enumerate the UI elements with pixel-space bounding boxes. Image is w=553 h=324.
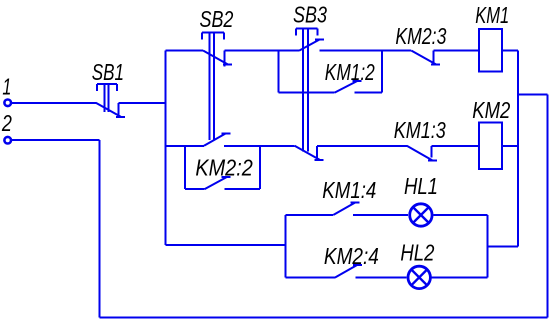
contact SB2 NO (row2) xyxy=(204,133,231,146)
left rail xyxy=(165,51,167,246)
wire KM1 coil to inner rail xyxy=(502,50,518,52)
svg-text:SB2: SB2 xyxy=(200,6,234,32)
coil KM1 xyxy=(479,29,502,72)
wire lamp row1 left xyxy=(285,214,333,216)
lamp HL2 xyxy=(408,266,430,288)
wire lamp feed left xyxy=(166,244,286,246)
svg-text:KM1:4: KM1:4 xyxy=(322,177,376,203)
svg-text:HL2: HL2 xyxy=(400,240,434,266)
svg-text:KM2:2: KM2:2 xyxy=(195,154,253,180)
wire jog inner to outer rail xyxy=(518,94,548,96)
wire KM1:3 to KM2 coil xyxy=(431,145,479,147)
wire row1 SB3 to KM2:3 xyxy=(319,50,411,52)
contact KM2:3 NC xyxy=(411,51,440,65)
terminal 1 xyxy=(4,100,11,107)
svg-text:KM2: KM2 xyxy=(472,97,510,123)
contact SB3 NO (row1) xyxy=(299,39,324,50)
terminal 2 xyxy=(4,137,11,144)
contact SB2 NC (row1) xyxy=(203,51,232,67)
svg-text:KM1:2: KM1:2 xyxy=(325,59,375,85)
inner right rail xyxy=(517,51,519,247)
svg-text:SB1: SB1 xyxy=(92,59,124,85)
wire HL2 to right edge xyxy=(432,276,488,278)
svg-text:KM2:3: KM2:3 xyxy=(395,23,446,49)
contact KM1:4 NO xyxy=(333,203,360,216)
coil KM2 xyxy=(479,123,502,170)
lamp box left edge xyxy=(284,215,286,277)
wire row2 SB3 to KM1:3 xyxy=(317,145,407,147)
pushbutton SB3 actuator xyxy=(296,29,318,152)
svg-text:KM1: KM1 xyxy=(475,2,509,28)
wire lamp feed right xyxy=(488,245,519,247)
wire KM2:2 branch bottom left xyxy=(185,188,204,190)
wire bottom return xyxy=(100,317,548,319)
wire KM2:3 to KM1 coil xyxy=(434,50,479,52)
wire terminal2 drop xyxy=(99,140,101,317)
svg-text:2: 2 xyxy=(1,110,12,136)
wire KM1:2 branch bottom right xyxy=(355,92,383,94)
wire row2 SB2 to SB3 xyxy=(224,145,295,147)
lamp box right edge xyxy=(487,215,489,277)
wire lamp row2 left xyxy=(285,276,335,278)
wire terminal2 right xyxy=(12,139,100,141)
branch KM2:2 right rise xyxy=(259,146,261,189)
wire HL1 to right edge xyxy=(434,214,488,216)
wire row1 left segment xyxy=(166,50,203,52)
svg-text:SB3: SB3 xyxy=(293,2,327,28)
svg-text:HL1: HL1 xyxy=(404,173,438,199)
svg-text:KM1:3: KM1:3 xyxy=(394,117,446,143)
outer right rail xyxy=(547,95,549,318)
wire SB1 to left rail xyxy=(118,102,166,104)
svg-text:KM2:4: KM2:4 xyxy=(324,243,379,269)
svg-text:1: 1 xyxy=(2,74,11,100)
wire KM2 coil to inner rail xyxy=(502,145,518,147)
lamp HL1 xyxy=(410,204,432,226)
wire KM2:4 to HL2 xyxy=(355,276,406,278)
contact KM2:4 NO xyxy=(335,265,362,278)
branch KM1:2 left drop xyxy=(277,51,279,93)
contact SB3 NC (row2) xyxy=(295,146,324,160)
wire terminal1 to SB1 xyxy=(12,102,96,104)
pushbutton SB2 actuator xyxy=(202,33,224,141)
wire KM1:2 branch bottom left xyxy=(278,92,334,94)
wire KM1:4 to HL1 xyxy=(353,214,408,216)
branch KM1:2 right rise xyxy=(381,51,383,93)
wire row1 SB2 to SB3 xyxy=(225,50,300,52)
contact KM2:2 NO xyxy=(205,177,231,189)
pushbutton SB1 (NC stop) xyxy=(96,84,125,117)
wire row2 left segment xyxy=(166,145,204,147)
wire KM2:2 branch bottom right xyxy=(225,188,261,190)
contact KM1:2 NO xyxy=(335,81,362,93)
contact KM1:3 NC xyxy=(407,146,437,161)
branch KM2:2 left drop xyxy=(184,146,186,189)
